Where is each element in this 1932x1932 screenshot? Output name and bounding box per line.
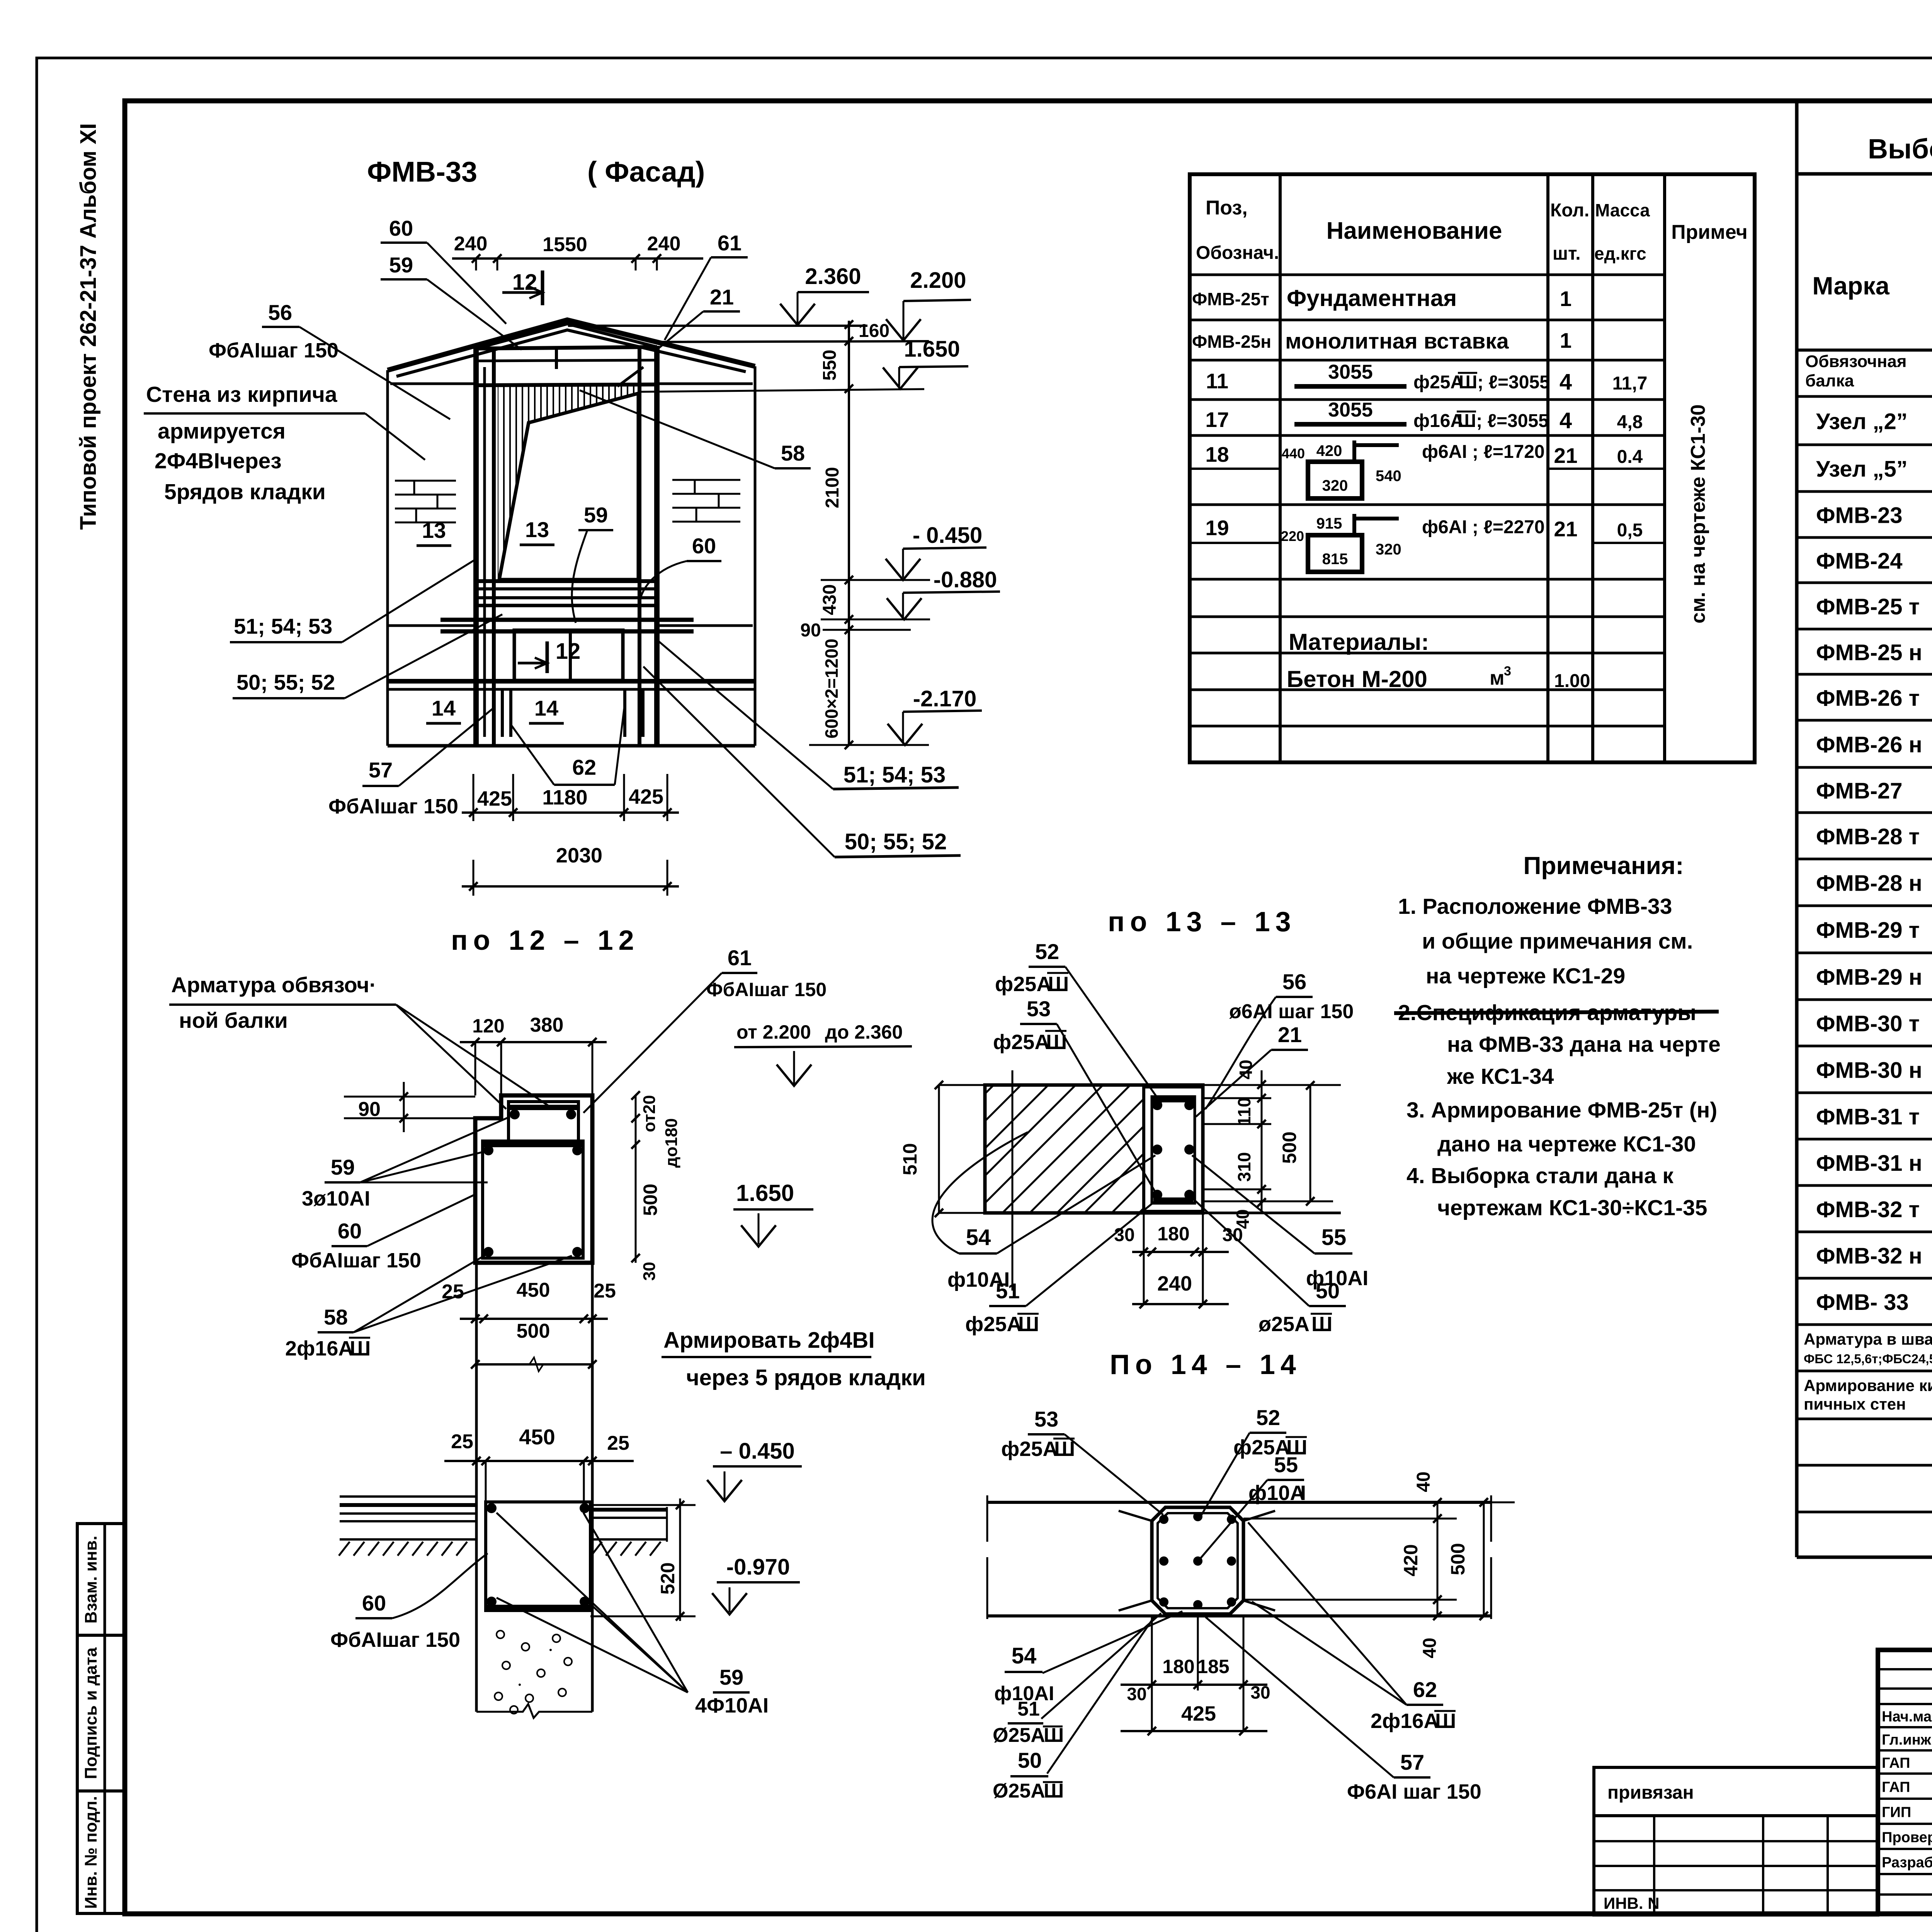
svg-text:ФБС 12,5,6т;ФБС24,5,6т: ФБС 12,5,6т;ФБС24,5,6т [1804, 1352, 1932, 1366]
s12 lower stirrup [483, 1141, 583, 1258]
svg-text:90: 90 [358, 1098, 381, 1121]
svg-text:шт.: шт. [1553, 243, 1581, 264]
svg-text:440: 440 [1282, 446, 1305, 461]
svg-text:2ф16А: 2ф16А [1371, 1709, 1439, 1733]
svg-text:2ф16А: 2ф16А [285, 1337, 353, 1360]
svg-text:57: 57 [369, 758, 393, 782]
s14 stirrup [1158, 1513, 1238, 1608]
svg-text:ф25А: ф25А [1413, 372, 1464, 393]
svg-text:ФМВ- 33: ФМВ- 33 [1816, 1290, 1909, 1315]
svg-text:52: 52 [1035, 939, 1059, 964]
svg-text:320: 320 [1322, 477, 1348, 494]
svg-text:30: 30 [1250, 1682, 1270, 1702]
facade lower panel box [514, 630, 623, 680]
svg-text:Ø25А: Ø25А [993, 1724, 1045, 1747]
svg-text:310: 310 [1234, 1152, 1254, 1182]
svg-text:Взам. инв.: Взам. инв. [82, 1536, 100, 1623]
s14 beam band [987, 1501, 1491, 1504]
svg-text:по 12 – 12: по 12 – 12 [451, 925, 639, 956]
svg-text:Наименование: Наименование [1327, 218, 1502, 244]
s13 hatch leader 54 [932, 1132, 1028, 1253]
svg-text:до 2.360: до 2.360 [825, 1021, 903, 1043]
svg-text:ФМВ-27: ФМВ-27 [1816, 779, 1903, 804]
svg-text:56: 56 [268, 300, 292, 325]
svg-text:5рядов кладки: 5рядов кладки [164, 480, 326, 504]
s12 wall verticals below [475, 1263, 478, 1712]
svg-text:21: 21 [1554, 517, 1577, 541]
svg-text:ФМВ-33: ФМВ-33 [367, 156, 477, 188]
svg-text:240: 240 [647, 233, 681, 255]
svg-text:14: 14 [432, 696, 456, 720]
s13 column box [1144, 1087, 1203, 1211]
svg-text:Ш: Ш [1044, 1780, 1064, 1802]
svg-text:58: 58 [324, 1305, 348, 1329]
svg-text:ФбАIшаг 150: ФбАIшаг 150 [706, 979, 827, 1000]
svg-text:30: 30 [1127, 1684, 1146, 1704]
svg-text:Марка: Марка [1812, 272, 1889, 300]
svg-text:-0.970: -0.970 [726, 1554, 790, 1580]
svg-text:ф6АI ; ℓ=2270: ф6АI ; ℓ=2270 [1422, 517, 1545, 537]
svg-text:320: 320 [1376, 541, 1401, 558]
svg-text:ФМВ-25т: ФМВ-25т [1192, 289, 1269, 309]
svg-text:Гл.инж.м: Гл.инж.м [1882, 1732, 1932, 1748]
svg-text:50: 50 [1316, 1279, 1340, 1303]
svg-text:12: 12 [512, 270, 537, 295]
svg-text:50; 55; 52: 50; 55; 52 [236, 670, 335, 694]
svg-text:ФбАIшаг 150: ФбАIшаг 150 [330, 1628, 460, 1651]
svg-text:3055: 3055 [1328, 361, 1373, 383]
svg-text:25: 25 [607, 1432, 629, 1454]
fnd floor slab left [340, 1495, 476, 1498]
svg-text:180: 180 [1162, 1656, 1194, 1677]
facade right elevation chain [848, 321, 850, 745]
svg-text:58: 58 [781, 441, 805, 465]
svg-text:52: 52 [1256, 1405, 1280, 1430]
svg-text:2.360: 2.360 [805, 264, 861, 289]
svg-text:240: 240 [454, 233, 488, 255]
svg-text:57: 57 [1400, 1750, 1424, 1774]
svg-text:ФМВ-29 н: ФМВ-29 н [1816, 965, 1922, 990]
svg-text:2Ф4ВIчерез: 2Ф4ВIчерез [155, 449, 282, 473]
svg-text:550: 550 [820, 350, 840, 381]
svg-text:Узел „5”: Узел „5” [1816, 457, 1908, 482]
svg-text:25: 25 [594, 1280, 616, 1302]
svg-text:монолитная вставка: монолитная вставка [1285, 329, 1509, 354]
svg-text:14: 14 [534, 696, 558, 720]
facade sill rebar band [476, 579, 657, 583]
svg-text:25: 25 [451, 1430, 473, 1453]
svg-text:450: 450 [519, 1425, 555, 1449]
svg-text:Выборка: Выборка [1868, 134, 1932, 165]
svg-text:425: 425 [1181, 1702, 1216, 1725]
svg-text:180: 180 [1157, 1223, 1189, 1245]
svg-text:Примеч: Примеч [1671, 221, 1747, 243]
facade hatched masonry area [498, 386, 638, 581]
svg-text:240: 240 [1157, 1272, 1192, 1295]
svg-text:Ш: Ш [1044, 1724, 1064, 1747]
s13 beam with hatched masonry [985, 1085, 1144, 1213]
svg-text:Подпись и дата: Подпись и дата [82, 1647, 100, 1779]
svg-text:Кол.: Кол. [1550, 200, 1589, 221]
svg-text:ФМВ-32 т: ФМВ-32 т [1816, 1197, 1920, 1222]
svg-text:120: 120 [472, 1015, 504, 1037]
svg-text:ф25А: ф25А [993, 1031, 1049, 1054]
svg-text:до180: до180 [662, 1118, 681, 1168]
svg-text:11: 11 [1206, 369, 1228, 393]
svg-text:Ш; ℓ=3055: Ш; ℓ=3055 [1458, 411, 1549, 431]
fnd bottom break line [476, 1704, 592, 1718]
svg-text:1.650: 1.650 [904, 337, 960, 362]
svg-text:Обвязочная: Обвязочная [1805, 352, 1906, 371]
facade apex level line [568, 325, 867, 327]
svg-text:4Ф10АI: 4Ф10АI [695, 1694, 769, 1717]
svg-text:Ш; ℓ=3055: Ш; ℓ=3055 [1459, 372, 1550, 393]
svg-text:ной балки: ной балки [179, 1008, 288, 1032]
svg-text:Армировать 2ф4ВI: Армировать 2ф4ВI [663, 1328, 875, 1353]
fnd ground hatch left [339, 1542, 350, 1556]
svg-text:ø6АI шаг 150: ø6АI шаг 150 [1229, 1000, 1354, 1023]
svg-text:60: 60 [692, 534, 716, 558]
svg-text:через 5 рядов кладки: через 5 рядов кладки [686, 1365, 926, 1390]
facade dim 2030 [462, 885, 679, 888]
svg-text:51; 54; 53: 51; 54; 53 [234, 614, 332, 638]
svg-text:2.200: 2.200 [910, 268, 966, 293]
facade brick symbol right [672, 479, 740, 481]
title block [1878, 1650, 1932, 1914]
svg-text:1: 1 [1560, 328, 1572, 352]
svg-text:от20: от20 [640, 1095, 659, 1132]
facade roof [388, 320, 755, 370]
svg-text:4: 4 [1560, 408, 1572, 433]
svg-text:4. Выборка стали дана к: 4. Выборка стали дана к [1406, 1163, 1673, 1188]
svg-text:110: 110 [1234, 1097, 1254, 1126]
fnd right floor [592, 1508, 667, 1512]
facade column horizontals [476, 347, 657, 349]
level lines -0.450 -0.880 [821, 579, 930, 581]
svg-text:ф6АI ; ℓ=1720: ф6АI ; ℓ=1720 [1422, 442, 1545, 462]
s12 upper stirrup [509, 1102, 578, 1144]
svg-text:ФМВ-25 т: ФМВ-25 т [1816, 594, 1920, 619]
facade dim 425 1180 425 [462, 811, 679, 814]
s12 right dim от20 до180 500 30 [635, 1095, 637, 1263]
svg-text:ø25А: ø25А [1259, 1313, 1310, 1336]
привязан box [1594, 1767, 1878, 1816]
svg-text:ФМВ-24: ФМВ-24 [1816, 549, 1903, 574]
svg-text:61: 61 [728, 946, 752, 970]
svg-text:55: 55 [1321, 1225, 1347, 1250]
svg-text:Материалы:: Материалы: [1289, 629, 1429, 655]
facade void insert (white trapezoid) [499, 393, 638, 580]
svg-text:60: 60 [338, 1219, 362, 1243]
svg-text:53: 53 [1034, 1407, 1058, 1431]
s12 beam outline [475, 1095, 592, 1263]
svg-text:Ш: Ш [1311, 1313, 1332, 1336]
svg-text:420: 420 [1400, 1544, 1422, 1576]
svg-text:ФбАIшаг 150: ФбАIшаг 150 [291, 1249, 421, 1272]
svg-text:ФМВ-30 т: ФМВ-30 т [1816, 1011, 1920, 1036]
svg-text:Ш: Ш [1048, 973, 1069, 996]
svg-text:54: 54 [1012, 1643, 1037, 1668]
svg-text:Ш: Ш [350, 1337, 371, 1360]
svg-text:см. на чертеже КС1-30: см. на чертеже КС1-30 [1687, 404, 1709, 623]
svg-text:и общие примечания см.: и общие примечания см. [1422, 929, 1693, 954]
svg-text:3ø10АI: 3ø10АI [302, 1187, 370, 1210]
svg-text:520: 520 [657, 1562, 679, 1594]
svg-text:59: 59 [331, 1155, 355, 1179]
svg-text:Примечания:: Примечания: [1523, 852, 1684, 879]
svg-text:510: 510 [899, 1143, 921, 1175]
facade floor lines [388, 679, 755, 684]
svg-text:– 0.450: – 0.450 [720, 1439, 795, 1464]
svg-text:25: 25 [442, 1281, 464, 1303]
svg-text:1180: 1180 [542, 786, 587, 809]
svg-text:Масса: Масса [1595, 200, 1650, 220]
s14 dims right 40 420 500 40 [1437, 1502, 1439, 1616]
svg-text:13: 13 [422, 518, 446, 543]
svg-text:185: 185 [1197, 1656, 1229, 1677]
table Выборка стали на один элемент [1795, 101, 1799, 1557]
svg-text:привязан: привязан [1607, 1782, 1694, 1803]
margin stamp Инв. № подл. [77, 1791, 125, 1913]
svg-text:1.00: 1.00 [1554, 671, 1590, 691]
svg-text:59: 59 [389, 253, 413, 277]
svg-text:40: 40 [1413, 1471, 1434, 1492]
svg-text:220: 220 [1281, 528, 1304, 544]
svg-text:ФМВ-25н: ФМВ-25н [1192, 332, 1271, 352]
svg-text:380: 380 [530, 1014, 564, 1036]
svg-text:2100: 2100 [822, 467, 843, 509]
svg-text:59: 59 [584, 503, 608, 527]
margin stamp Подпись и дата [77, 1635, 125, 1791]
svg-text:51: 51 [1017, 1698, 1040, 1720]
svg-text:2030: 2030 [556, 844, 602, 867]
svg-text:0.4: 0.4 [1617, 447, 1643, 467]
svg-text:ФМВ-32 н: ФМВ-32 н [1816, 1243, 1922, 1269]
svg-text:53: 53 [1027, 997, 1051, 1021]
svg-text:62: 62 [1413, 1677, 1437, 1702]
svg-text:на чертеже КС1-29: на чертеже КС1-29 [1426, 964, 1625, 988]
svg-text:чертежам КС1-30÷КС1-35: чертежам КС1-30÷КС1-35 [1437, 1196, 1707, 1220]
s14 chamfer wings [1119, 1511, 1152, 1611]
svg-text:I: I [1300, 1481, 1306, 1505]
s13 dim chain right 500 [1310, 1085, 1311, 1201]
svg-text:ФМВ-23: ФМВ-23 [1816, 503, 1903, 528]
svg-text:ФМВ-26 т: ФМВ-26 т [1816, 686, 1920, 711]
привязан grid [1594, 1816, 1878, 1915]
svg-text:ед.кгс: ед.кгс [1594, 243, 1646, 264]
svg-text:Узел „2”: Узел „2” [1816, 409, 1908, 434]
svg-text:ФМВ-28 н: ФМВ-28 н [1816, 871, 1922, 896]
facade right wall panel [754, 366, 757, 746]
svg-text:425: 425 [477, 787, 512, 810]
svg-text:915: 915 [1316, 515, 1342, 532]
svg-text:( Фасад): ( Фасад) [587, 156, 705, 188]
svg-text:ИНВ. N: ИНВ. N [1604, 1894, 1660, 1912]
svg-text:- 0.450: - 0.450 [913, 523, 983, 548]
svg-text:425: 425 [629, 785, 663, 808]
svg-text:40: 40 [1420, 1638, 1440, 1658]
svg-text:3055: 3055 [1328, 399, 1373, 421]
facade left wall panel [386, 370, 389, 746]
svg-text:ГАП: ГАП [1882, 1779, 1910, 1796]
svg-text:3. Армирование ФМВ-25т (н): 3. Армирование ФМВ-25т (н) [1406, 1098, 1717, 1122]
svg-text:Разраб.: Разраб. [1882, 1855, 1932, 1871]
svg-text:815: 815 [1322, 551, 1348, 568]
svg-text:Ø25А: Ø25А [993, 1780, 1045, 1802]
svg-text:армируется: армируется [158, 419, 286, 444]
svg-text:ф25А: ф25А [995, 973, 1051, 996]
svg-text:60: 60 [389, 216, 413, 240]
svg-text:Инв. № подл.: Инв. № подл. [82, 1796, 100, 1909]
svg-text:500: 500 [1447, 1543, 1469, 1575]
svg-text:дано на чертеже КС1-30: дано на чертеже КС1-30 [1437, 1132, 1696, 1156]
svg-text:-0.880: -0.880 [934, 567, 997, 592]
facade window top level line [638, 389, 924, 392]
table Перечень элементов (parts list) [1190, 174, 1755, 762]
svg-text:ФМВ-28 т: ФМВ-28 т [1816, 824, 1920, 849]
svg-text:ФбАIшаг 150: ФбАIшаг 150 [209, 339, 338, 362]
svg-text:Фундаментная: Фундаментная [1287, 285, 1457, 311]
svg-text:90: 90 [800, 620, 821, 641]
svg-text:Типовой проект 262-21-37: Типовой проект 262-21-37 Альбом XI [76, 123, 101, 530]
svg-text:Ш: Ш [1018, 1313, 1039, 1336]
svg-text:Армирование кир-: Армирование кир- [1804, 1376, 1932, 1395]
svg-text:12: 12 [556, 639, 581, 664]
s14 dim chain 500 [1483, 1502, 1485, 1616]
svg-text:по 13 – 13: по 13 – 13 [1108, 906, 1296, 937]
svg-text:30: 30 [1114, 1225, 1134, 1245]
svg-text:19: 19 [1205, 516, 1229, 540]
svg-text:11,7: 11,7 [1612, 373, 1648, 394]
svg-text:61: 61 [718, 231, 742, 255]
svg-text:21: 21 [710, 285, 734, 309]
svg-text:ФМВ-29 т: ФМВ-29 т [1816, 918, 1920, 943]
svg-text:500: 500 [639, 1184, 661, 1216]
svg-text:50: 50 [1018, 1748, 1042, 1772]
svg-text:м: м [1490, 667, 1504, 689]
svg-text:600×2=1200: 600×2=1200 [821, 639, 842, 738]
svg-text:50; 55; 52: 50; 55; 52 [845, 829, 947, 854]
svg-text:51; 54; 53: 51; 54; 53 [844, 762, 946, 787]
facade central column edges [473, 348, 479, 746]
svg-text:500: 500 [1279, 1131, 1300, 1163]
svg-text:30: 30 [640, 1262, 659, 1281]
svg-text:Ф6АI шаг 150: Ф6АI шаг 150 [1347, 1780, 1481, 1803]
svg-text:60: 60 [362, 1591, 386, 1615]
svg-text:540: 540 [1376, 468, 1401, 485]
svg-text:4,8: 4,8 [1617, 412, 1643, 432]
svg-text:13: 13 [525, 517, 549, 542]
svg-text:Поз,: Поз, [1206, 197, 1248, 219]
svg-text:40: 40 [1236, 1060, 1256, 1079]
svg-text:на ФМВ-33 дана на черте: на ФМВ-33 дана на черте [1447, 1032, 1721, 1057]
svg-text:от 2.200: от 2.200 [736, 1021, 811, 1043]
svg-text:Ш: Ш [1435, 1709, 1456, 1733]
svg-text:По 14 – 14: По 14 – 14 [1110, 1349, 1301, 1380]
facade leader cross tick [617, 367, 643, 386]
facade column top level line [657, 341, 929, 342]
svg-text:500: 500 [517, 1320, 550, 1342]
svg-text:56: 56 [1282, 969, 1306, 994]
facade brick symbol left [395, 480, 456, 482]
svg-text:1550: 1550 [543, 233, 587, 256]
s14 column octagon [1152, 1507, 1243, 1614]
svg-text:17: 17 [1205, 408, 1229, 432]
fnd column box [486, 1502, 590, 1611]
svg-text:ФбАIшаг 150: ФбАIшаг 150 [328, 795, 458, 818]
svg-text:ф16А: ф16А [1413, 411, 1464, 431]
svg-text:18: 18 [1205, 442, 1229, 466]
facade rebar verticals [483, 367, 486, 737]
svg-text:ф25А: ф25А [1001, 1437, 1058, 1461]
svg-text:Стена из кирпича: Стена из кирпича [146, 382, 338, 407]
svg-text:Нач.маст.: Нач.маст. [1882, 1709, 1932, 1725]
svg-text:ФМВ-31 н: ФМВ-31 н [1816, 1151, 1922, 1176]
svg-text:Провер.: Провер. [1882, 1830, 1932, 1846]
svg-text:Обознач.: Обознач. [1196, 243, 1279, 263]
svg-text:-2.170: -2.170 [913, 686, 976, 711]
svg-text:Арматура в швах: Арматура в швах [1804, 1330, 1932, 1348]
svg-text:балка: балка [1805, 371, 1854, 390]
svg-text:Арматура обвязоч·: Арматура обвязоч· [171, 973, 376, 997]
svg-text:1: 1 [1560, 287, 1572, 311]
facade top dimension 240 1550 240 [452, 257, 703, 260]
margin stamp Взам. инв. [77, 1524, 125, 1635]
fnd concrete texture [497, 1631, 504, 1638]
svg-text:1. Расположение ФМВ-33: 1. Расположение ФМВ-33 [1398, 894, 1672, 919]
svg-text:55: 55 [1274, 1452, 1298, 1477]
svg-text:пичных стен: пичных стен [1804, 1395, 1906, 1413]
svg-text:ФМВ-25 н: ФМВ-25 н [1816, 640, 1922, 665]
svg-text:ФМВ-26 н: ФМВ-26 н [1816, 732, 1922, 757]
svg-text:21: 21 [1278, 1022, 1302, 1047]
svg-text:ФМВ-30 н: ФМВ-30 н [1816, 1058, 1922, 1083]
svg-text:450: 450 [517, 1279, 550, 1301]
svg-text:же КС1-34: же КС1-34 [1447, 1064, 1554, 1089]
svg-text:4: 4 [1560, 369, 1572, 395]
svg-text:420: 420 [1316, 442, 1342, 459]
svg-text:430: 430 [820, 584, 840, 615]
svg-text:3: 3 [1504, 664, 1511, 679]
svg-text:51: 51 [996, 1279, 1020, 1303]
svg-text:ФМВ-31 т: ФМВ-31 т [1816, 1104, 1920, 1129]
svg-text:54: 54 [966, 1225, 991, 1250]
svg-text:ГИП: ГИП [1882, 1804, 1911, 1821]
svg-text:ф25А: ф25А [965, 1313, 1022, 1336]
svg-text:1.650: 1.650 [736, 1180, 794, 1206]
svg-text:59: 59 [719, 1665, 743, 1689]
svg-text:21: 21 [1554, 444, 1577, 468]
svg-text:0,5: 0,5 [1617, 520, 1643, 541]
svg-text:Бетон М-200: Бетон М-200 [1287, 666, 1427, 692]
svg-text:160: 160 [859, 321, 889, 341]
svg-text:62: 62 [572, 755, 596, 779]
svg-text:ГАП: ГАП [1882, 1755, 1910, 1771]
s13 right dims 40 110 310 40 [1261, 1070, 1263, 1211]
